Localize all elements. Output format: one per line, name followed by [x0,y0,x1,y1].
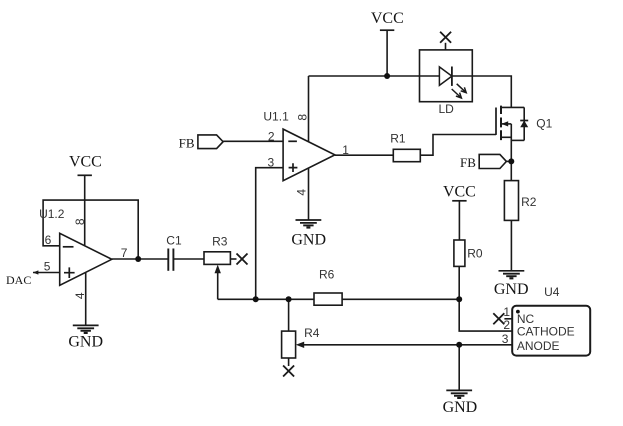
svg-text:R3: R3 [212,235,228,249]
svg-text:R0: R0 [467,246,483,260]
svg-text:4: 4 [295,189,309,196]
svg-text:4: 4 [73,292,87,299]
svg-text:3: 3 [502,332,509,346]
svg-text:2: 2 [268,129,275,143]
svg-text:U4: U4 [544,285,560,299]
svg-text:ANODE: ANODE [517,339,560,353]
svg-text:6: 6 [45,233,52,247]
svg-text:R6: R6 [319,268,335,282]
svg-text:5: 5 [44,259,51,273]
svg-text:FB: FB [460,155,476,170]
svg-text:CATHODE: CATHODE [517,324,575,338]
svg-text:7: 7 [121,246,128,260]
svg-text:R2: R2 [521,195,537,209]
svg-text:U1.1: U1.1 [263,110,289,124]
svg-text:R1: R1 [390,131,406,145]
svg-text:C1: C1 [166,234,182,248]
svg-text:1: 1 [342,143,349,157]
svg-text:GND: GND [291,232,326,249]
svg-text:FB: FB [179,135,195,150]
svg-text:3: 3 [268,156,275,170]
svg-text:VCC: VCC [69,153,102,170]
svg-text:GND: GND [494,281,529,298]
svg-text:2: 2 [503,318,510,332]
svg-text:LD: LD [439,102,455,116]
svg-text:Q1: Q1 [536,117,552,131]
svg-text:1: 1 [503,305,510,319]
svg-text:VCC: VCC [443,184,476,201]
svg-text:U1.2: U1.2 [39,207,65,221]
svg-text:VCC: VCC [371,10,404,27]
svg-text:GND: GND [68,333,103,350]
svg-text:GND: GND [443,399,478,416]
svg-text:R4: R4 [304,326,320,340]
svg-text:DAC: DAC [6,273,31,287]
svg-text:8: 8 [73,218,87,225]
svg-text:8: 8 [296,114,310,121]
